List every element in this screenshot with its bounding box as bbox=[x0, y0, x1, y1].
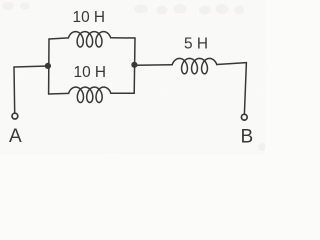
wire: node to terminal A horizontal bbox=[14, 66, 48, 67]
wire: top branch right lead bbox=[111, 37, 135, 39]
wire: top branch left lead bbox=[49, 38, 68, 39]
node (junction dot) right bbox=[131, 62, 137, 68]
terminal B circle bbox=[241, 114, 247, 120]
inductor L1 10 H (top) bbox=[68, 32, 110, 47]
node (junction dot) left bbox=[45, 63, 51, 69]
terminal A circle bbox=[12, 113, 18, 119]
svg-text:A: A bbox=[9, 126, 22, 147]
wire: right node to 5H inductor bbox=[135, 64, 173, 67]
inductor L2 10 H (bottom) bbox=[69, 87, 111, 102]
wire: right rail of parallel pair bbox=[133, 38, 136, 93]
inductor L3 5 H bbox=[172, 58, 217, 73]
svg-text:10 H: 10 H bbox=[74, 64, 107, 81]
wire: terminal A vertical drop bbox=[13, 67, 16, 113]
svg-text:B: B bbox=[241, 127, 254, 148]
svg-text:5 H: 5 H bbox=[184, 36, 208, 53]
wire: left rail of parallel pair bbox=[48, 39, 50, 94]
wire: terminal B vertical drop bbox=[244, 63, 246, 114]
wire: bottom branch right lead bbox=[111, 92, 134, 94]
wire: bottom branch left lead bbox=[49, 92, 69, 95]
svg-text:10 H: 10 H bbox=[73, 9, 106, 26]
wire: 5H to corner bbox=[217, 63, 247, 65]
